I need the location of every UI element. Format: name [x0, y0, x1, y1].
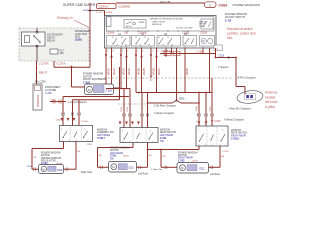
wire: SJB feed riser: [89, 3, 91, 68]
svg-text:C-220: C-220: [45, 92, 52, 95]
svg-text:1 C285: 1 C285: [196, 51, 204, 54]
RR motor: [177, 163, 209, 174]
svg-text:DRIVER DOOR MODULE (DDM): DRIVER DOOR MODULE (DDM): [150, 19, 183, 21]
svg-text:14A251: 14A251: [143, 67, 146, 76]
svg-text:C684: C684: [219, 4, 228, 8]
svg-text:C522: C522: [199, 169, 205, 171]
connector brackets on feeds: [62, 113, 213, 117]
svg-text:14A221: 14A221: [122, 67, 125, 76]
driver door module DDM outer: [105, 16, 217, 49]
pin wires with flow arrows: [106, 48, 210, 93]
svg-text:Primary In: Primary In: [57, 16, 73, 20]
connector tick at dashed line: [150, 76, 153, 80]
connector run C2284: [160, 53, 216, 55]
driver motor: [39, 165, 64, 174]
svg-text:C520: C520: [56, 120, 62, 122]
svg-text:1 Support: 1 Support: [218, 66, 229, 69]
svg-text:C521: C521: [128, 168, 134, 170]
svg-text:C2284 1: C2284 1: [161, 50, 171, 53]
svg-text:C-5218: C-5218: [231, 138, 240, 141]
svg-text:C510: C510: [196, 106, 198, 112]
svg-text:1: 1: [122, 131, 123, 133]
svg-text:C2280B: C2280B: [119, 4, 130, 8]
one touch unit: [124, 20, 146, 29]
smart junction box SJB dashed: [19, 28, 89, 61]
wire through relay: [36, 28, 38, 33]
svg-text:WINDOW: WINDOW: [160, 130, 171, 132]
svg-text:C510: C510: [219, 55, 225, 58]
svg-text:Left Rear: Left Rear: [138, 173, 148, 176]
connector ticks LR motor: [101, 166, 141, 169]
svg-text:Right Side: Right Side: [81, 171, 93, 174]
svg-text:4: 4: [222, 130, 223, 132]
svg-text:Left Rear: Left Rear: [210, 173, 220, 176]
svg-text:RED 57: RED 57: [39, 72, 48, 75]
svg-text:C520: C520: [57, 170, 63, 172]
svg-text:C520: C520: [27, 166, 33, 168]
svg-text:1: 1: [209, 3, 211, 7]
lock unit: [201, 19, 213, 29]
svg-text:position, (under door: position, (under door: [227, 32, 257, 36]
connector pair left: [50, 101, 66, 103]
DDM inner module: [107, 17, 215, 31]
pin labels under box: [107, 50, 169, 52]
right jog wires: [215, 48, 217, 58]
svg-text:C2286: C2286: [200, 32, 208, 35]
svg-text:14631: 14631: [192, 160, 199, 162]
svg-text:C520: C520: [87, 144, 93, 146]
svg-text:A-pillar: A-pillar: [265, 105, 276, 109]
svg-text:WINDOW: WINDOW: [97, 130, 108, 132]
svg-text:C510: C510: [210, 106, 212, 112]
svg-text:DOOR LOCK SW: DOOR LOCK SW: [176, 28, 192, 30]
SW-LR left rear switch: [120, 128, 158, 143]
fuse F2.7: [50, 49, 58, 54]
svg-text:AUTO: AUTO: [126, 25, 132, 28]
dashed support labels: [118, 103, 148, 105]
svg-text:4: 4: [150, 131, 151, 133]
SW-LR output wires: [132, 143, 134, 148]
splice S506: [176, 93, 178, 101]
svg-text:14A201: 14A201: [107, 67, 110, 76]
svg-text:14A271: 14A271: [158, 67, 161, 76]
wire: down to cluster: [36, 61, 38, 84]
svg-text:C-521: C-521: [110, 155, 117, 158]
wire: main power feed top: [116, 2, 205, 4]
svg-text:C294 2: C294 2: [99, 5, 109, 9]
SW-D output wires: [63, 142, 65, 149]
svg-text:MODULE: MODULE: [152, 24, 162, 26]
svg-text:15 C2 1 C2280B: 15 C2 1 C2280B: [96, 12, 113, 14]
mid hlines: [106, 88, 130, 90]
svg-text:WINDOW: WINDOW: [36, 94, 40, 107]
svg-text:Antenna:: Antenna:: [265, 91, 278, 95]
flow arrows: [105, 54, 168, 57]
svg-text:14A241: 14A241: [137, 67, 140, 76]
svg-text:30A C/B: 30A C/B: [160, 0, 170, 4]
svg-text:14631: 14631: [123, 156, 130, 158]
SW-LR feeds: [123, 89, 125, 128]
svg-text:+ Rear Din C/support: + Rear Din C/support: [228, 108, 251, 111]
svg-text:OPEN: OPEN: [138, 22, 145, 24]
connector ticks driver motor: [34, 168, 68, 171]
svg-text:15A: 15A: [60, 52, 65, 55]
svg-text:C-522: C-522: [178, 159, 185, 162]
svg-text:left-hand: left-hand: [265, 100, 278, 104]
LR motor: [109, 162, 137, 173]
SW-D driver window switch: [60, 126, 93, 142]
svg-text:5: 5: [85, 129, 86, 131]
vertical circuit labels: [107, 67, 189, 76]
svg-text:WINDOW: WINDOW: [231, 130, 242, 132]
front motor wires: [71, 67, 73, 87]
svg-text:C-520a: C-520a: [81, 121, 89, 123]
connector 1 box: [205, 2, 217, 8]
svg-text:trim.: trim.: [227, 36, 233, 40]
svg-text:14A211: 14A211: [113, 67, 116, 75]
svg-text:1 C270A: 1 C270A: [39, 62, 49, 66]
svg-text:1: 1: [198, 130, 199, 132]
svg-text:C520: C520: [121, 106, 123, 112]
pin tick row inside box bottom: [106, 46, 203, 48]
svg-text:1 Crew C/support: 1 Crew C/support: [68, 101, 87, 104]
instrument cluster: [33, 84, 42, 110]
SW-RR feeds: [198, 93, 200, 127]
svg-text:(SJB): (SJB): [75, 38, 82, 42]
svg-text:C-52: C-52: [225, 18, 232, 22]
svg-text:M: M: [203, 40, 205, 43]
svg-text:C520: C520: [127, 106, 129, 112]
svg-text:14A261: 14A261: [152, 67, 155, 76]
svg-text:5 A C280: 5 A C280: [35, 80, 46, 84]
svg-text:5 (A) Rear C/support: 5 (A) Rear C/support: [154, 105, 176, 108]
connector C294 box: [97, 4, 117, 9]
svg-text:POWER WINDOWS: POWER WINDOWS: [233, 3, 260, 7]
svg-text:C-510: C-510: [214, 120, 221, 123]
ellipse annotation: [236, 89, 263, 104]
svg-text:C-510: C-510: [223, 151, 230, 153]
svg-text:located: located: [265, 95, 276, 99]
svg-text:Mounted at switch: Mounted at switch: [227, 27, 253, 31]
svg-text:Low: Low: [83, 8, 89, 12]
svg-text:14A281: 14A281: [186, 67, 189, 76]
RR run wires: [148, 149, 200, 151]
interior pin ticks top row: [118, 30, 188, 32]
svg-text:7 C270A: 7 C270A: [56, 62, 66, 66]
accessory delay relay: [22, 32, 46, 46]
wire: SJB out to riser: [53, 61, 55, 67]
svg-text:1 Gate C/m: 1 Gate C/m: [151, 168, 162, 171]
svg-text:C/B: C/B: [124, 32, 128, 35]
svg-text:A (Rear) C/support: A (Rear) C/support: [224, 119, 244, 122]
motor symbols right: [200, 36, 215, 47]
svg-text:A (Rear) C/support: A (Rear) C/support: [154, 112, 174, 115]
svg-text:C2280A: C2280A: [106, 32, 115, 35]
svg-text:3: 3: [61, 129, 62, 131]
svg-text:C-5217: C-5217: [97, 137, 106, 140]
svg-text:C-520: C-520: [105, 89, 113, 93]
svg-text:DRIVE: DRIVE: [199, 26, 206, 28]
wire to DDM: [88, 10, 105, 12]
svg-text:RELAY: RELAY: [47, 39, 56, 43]
SW-RR right rear switch: [196, 126, 228, 146]
svg-text:14A231: 14A231: [128, 67, 131, 76]
svg-text:(9 Pin C/support: (9 Pin C/support: [237, 76, 256, 80]
door boundary dashed: [104, 77, 232, 79]
front motor: [85, 84, 114, 95]
driver feeds: [62, 97, 64, 126]
svg-text:S506: S506: [179, 99, 185, 101]
connector ticks RR motor: [165, 166, 213, 169]
